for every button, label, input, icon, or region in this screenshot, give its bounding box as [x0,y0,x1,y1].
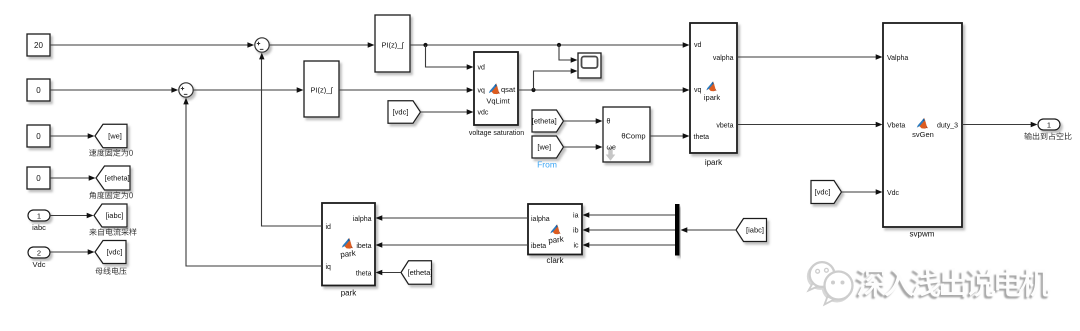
svg-text:2: 2 [37,248,41,257]
svg-text:ipark: ipark [705,158,723,167]
wire iabc to goto [iabc] [50,213,94,218]
svg-text:svpwm: svpwm [910,230,935,239]
wire demux ic to clark [583,242,676,247]
label ipark [705,158,723,167]
label From (blue) [537,160,557,170]
svg-text:vd: vd [478,65,486,72]
svg-text:Vdc: Vdc [887,190,900,197]
svg-text:[iabc]: [iabc] [746,226,764,235]
wire demux ib to clark [583,227,676,232]
wire PI1 output to ipark vd [410,42,690,47]
svg-text:ωe: ωe [607,145,616,152]
svg-text:1: 1 [1047,120,1051,129]
svg-text:[we]: [we] [537,143,551,152]
svg-text:[iabc]: [iabc] [106,211,124,220]
wire 0 to goto [we] [50,133,95,138]
wire branch J2 to scope input 1 [559,45,578,63]
svg-text:From: From [537,160,557,170]
svg-text:0: 0 [36,132,41,141]
svg-text:voltage saturation: voltage saturation [469,130,524,137]
svg-text:ib: ib [573,228,579,235]
wire [etheta] to thetaComp [564,118,603,123]
svg-text:ibeta: ibeta [531,243,546,250]
from tag [we] 1 [532,136,564,158]
junction dot J1 [423,43,427,47]
MATLAB function block ipark [690,23,737,153]
svg-text:theta: theta [694,134,710,141]
source constant block 0 (q current ref) [27,79,50,101]
wire 0 to sum2 [50,87,178,92]
svg-text:PI(z)_∫: PI(z)_∫ [310,86,333,95]
svg-text:iq: iq [326,264,332,271]
PI controller PI1 [375,15,410,72]
svg-text:θComp: θComp [621,132,645,141]
scope block [578,53,601,78]
svg-text:vq: vq [478,88,486,95]
annotation 母线电压 [96,267,127,274]
svg-text:ibeta: ibeta [356,243,371,250]
annotation 角度固定为0 [89,191,133,199]
from tag [iabc] 2 (flipped) [736,219,767,242]
PI controller PI2 [304,61,339,117]
wire from [vdc] to voltage saturation vdc [421,109,474,114]
svg-text:iabc: iabc [32,223,46,232]
sum junction sum1 speed loop [255,38,269,52]
svg-text:qsat: qsat [501,85,516,94]
goto tag [iabc] [94,204,127,227]
svg-text:[etheta]: [etheta] [105,174,130,183]
source constant block 20 [27,34,50,56]
from tag [etheta] 1 [532,110,564,132]
from tag [vdc] 1 [388,101,421,124]
MATLAB function block voltage saturation VqLimt [474,52,518,125]
annotation 输出到占空比 [1024,132,1071,139]
svg-text:vq: vq [694,87,702,94]
watermark wechat logo [808,262,853,304]
wire voltage saturation output to ipark vq [518,87,690,92]
wire ipark vbeta to svpwm Vbeta [737,122,883,127]
wire ipark valpha to svpwm Valpha [737,54,883,59]
label voltage saturation [469,130,524,137]
wire 0 to goto [etheta] [50,175,96,180]
label svpwm [910,230,935,239]
wire park id feedback to sum1 [259,53,322,226]
annotation 来自电流采样 [89,228,136,235]
label clark [547,256,565,265]
label park [341,289,358,298]
wire clark ialpha to park [376,215,529,220]
wire thetaComp to ipark theta [650,133,690,138]
svg-text:valpha: valpha [713,55,734,62]
svg-text:[vdc]: [vdc] [107,248,123,257]
watermark text 深入浅出说电机 [855,268,1051,299]
wire branch J1 to voltage saturation vd [426,45,474,70]
svg-text:[etheta]: [etheta] [532,117,557,126]
svg-text:0: 0 [36,86,41,95]
wire [etheta] to park theta [376,270,402,275]
svg-text:1: 1 [37,211,41,220]
wire PI2 output to voltage saturation vq [339,87,474,92]
MATLAB function block svpwm [883,23,962,227]
inport 2 Vdc [28,247,50,269]
svg-text:ialpha: ialpha [353,216,372,223]
wire 20 to sum1 [50,42,254,47]
svg-text:ialpha: ialpha [531,216,550,223]
junction dot J3 [531,88,535,92]
svg-text:[etheta]: [etheta] [407,268,432,277]
source constant block 0 (speed) [27,125,50,147]
demux bar [675,204,680,256]
svg-text:ic: ic [573,243,579,250]
svg-text:Vdc: Vdc [33,260,46,269]
svg-text:park: park [341,289,358,298]
wire park iq feedback to sum2 [183,98,322,266]
svg-text:vd: vd [694,42,702,49]
svg-text:ipark: ipark [704,93,721,102]
subsystem block thetaComp [603,107,650,162]
svg-text:vbeta: vbeta [716,122,733,129]
svg-text:clark: clark [547,256,565,265]
svg-text:Vbeta: Vbeta [887,122,905,129]
wire [vdc] to svpwm Vdc [842,189,883,194]
svg-text:ia: ia [573,213,579,220]
outport 1 duty [1038,119,1060,130]
source constant block 0 (angle) [27,167,50,189]
svg-text:[vdc]: [vdc] [815,188,831,197]
svg-text:0: 0 [36,174,41,183]
wire [iabc] to demux [681,227,737,232]
wire demux ia to clark [583,212,676,217]
svg-text:Valpha: Valpha [887,55,908,62]
svg-text:[vdc]: [vdc] [393,108,409,117]
svg-text:svGen: svGen [912,130,934,139]
from tag [vdc] 2 [811,181,842,204]
inport 1 iabc [28,210,50,232]
goto tag [etheta] [96,166,130,190]
svg-text:theta: theta [356,270,372,277]
wire branch J3 to scope input 2 [534,68,578,90]
wire sum1 to PI1 [269,42,374,47]
svg-text:[we]: [we] [108,132,122,141]
from tag [etheta] 2 (flipped) [401,261,433,285]
svg-text:id: id [326,224,332,231]
annotation 速度固定为0 [89,149,133,157]
svg-text:20: 20 [34,41,43,50]
svg-text:PI(z)_∫: PI(z)_∫ [381,41,404,50]
MATLAB function block clark (flipped) [528,204,582,255]
goto tag [vdc] [95,241,126,264]
wire clark ibeta to park [376,242,529,247]
sum junction sum2 current loop [179,83,193,97]
wire sum2 to PI2 [193,87,303,92]
goto tag [we] [95,124,127,148]
svg-text:vdc: vdc [478,110,489,117]
junction dot J2 [557,43,561,47]
MATLAB function block park (flipped) [322,203,375,286]
wire svpwm duty_3 to outport [962,122,1038,127]
wire Vdc to goto [vdc] [50,249,95,254]
svg-text:duty_3: duty_3 [937,122,958,129]
svg-text:VqLimt: VqLimt [486,97,510,106]
svg-text:θ: θ [607,119,611,126]
wire [we] to thetaComp we [564,144,603,149]
